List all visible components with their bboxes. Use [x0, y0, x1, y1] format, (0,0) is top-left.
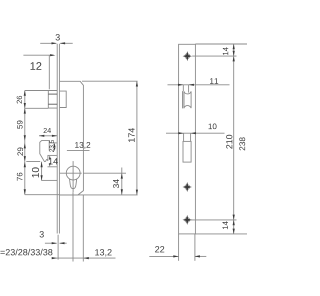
dim 12 line — [23, 54, 53, 56]
ext line cylinder center to 34 — [83, 172, 126, 174]
ext lines rect cutout — [183, 133, 185, 141]
label 29 — [17, 148, 23, 156]
dim 24 line — [39, 135, 57, 137]
dim line 14top/210/14bottom — [233, 44, 235, 234]
dim 13,2 bottom arrow — [84, 257, 89, 259]
bolt body inside case — [60, 91, 66, 107]
dim 11 line — [168, 84, 230, 86]
label 76 — [17, 173, 23, 181]
dim 10 right line — [166, 132, 225, 134]
label 24 — [44, 128, 51, 133]
bolt head left of plate — [48, 91, 57, 109]
ext line cylinder bottom — [42, 179, 57, 181]
label 23,5 — [49, 140, 54, 152]
label 14 top — [223, 47, 228, 55]
dim 22 arrows — [173, 255, 178, 257]
dim 11 arrows — [178, 84, 183, 86]
ext lines latch cutout — [182, 85, 184, 91]
dim 174 line — [136, 81, 138, 195]
dim 22 line — [149, 255, 178, 257]
label 12 — [31, 62, 42, 70]
hook shape — [40, 141, 49, 162]
dim 174 arrows — [136, 81, 138, 86]
dim 14 hook arrows — [49, 156, 51, 159]
label 3 bottom — [40, 231, 44, 237]
dim 34 arrows — [121, 173, 123, 178]
bolt bevel lines — [48, 93, 57, 95]
plate ext line down — [57, 235, 59, 260]
label 14 hook — [49, 158, 58, 164]
latch cutout bobbin — [184, 91, 191, 108]
chain tick arrows — [24, 91, 26, 96]
label 11 — [210, 78, 218, 84]
dim 3 bottom arrows — [52, 242, 57, 244]
dim 14 bottom arrows — [233, 220, 235, 225]
plate bottom ext to right edge — [195, 233, 247, 235]
small line below 14 — [48, 166, 57, 168]
label 174 — [128, 128, 134, 142]
label 34 — [113, 179, 119, 188]
screw hole middle — [183, 182, 192, 192]
top screw ext line — [192, 55, 236, 57]
label 238 — [239, 137, 245, 150]
ext case bottom to chain — [25, 194, 60, 196]
left chain dimension line — [24, 91, 26, 195]
faceplate front view outline — [179, 44, 196, 234]
screw hole top — [183, 51, 192, 61]
label 22 — [155, 246, 164, 252]
dim 3 top dimension line — [40, 42, 56, 44]
cylinder center ext line down — [72, 192, 74, 261]
dim 34 line — [121, 168, 123, 195]
dim 210 arrows — [233, 56, 235, 61]
label backset — [0, 249, 52, 256]
dim 24 arrows — [39, 135, 44, 137]
ext line 174 top — [82, 80, 138, 82]
dim 3 bottom line — [45, 242, 57, 244]
ext line case bottom to 174 — [60, 194, 138, 196]
cylinder crosshair horizontal — [60, 172, 82, 174]
bottom backset dim line — [53, 257, 116, 259]
ext line bolt bottom — [25, 107, 49, 109]
dim 10 right arrows — [178, 132, 183, 134]
small line above 14 — [48, 154, 57, 156]
hook right edge — [48, 141, 50, 151]
lock case outline — [60, 81, 84, 195]
bolt face extension line — [48, 55, 50, 89]
euro cylinder circle — [66, 166, 80, 180]
dim 3 top arrows — [52, 42, 57, 44]
label 26 — [17, 96, 22, 104]
dim 12 arrow — [50, 54, 55, 56]
euro cylinder lower lobe — [70, 179, 77, 189]
plate top ext to right edge — [195, 43, 247, 45]
label 14 bottom — [223, 221, 228, 229]
middle rect cutout — [183, 141, 191, 162]
label 13,2 bottom — [95, 249, 111, 256]
ext line hook tip — [26, 161, 40, 163]
backset dim arrow — [52, 257, 57, 259]
screw hole bottom — [183, 215, 192, 225]
ext line bolt top — [25, 90, 49, 92]
label 10 left — [32, 167, 39, 177]
label 59 — [17, 121, 23, 129]
label 210 — [226, 135, 232, 149]
label 10 right — [209, 124, 217, 130]
dim 10 left line — [41, 162, 43, 181]
small line above 23,5 — [50, 142, 57, 144]
dim 14 top arrows — [233, 44, 235, 49]
dim 22 exts below plate — [178, 234, 180, 261]
label 13,2 mid underline — [67, 150, 90, 152]
bottom screw ext line — [191, 219, 237, 221]
dim 23,5 arrows — [54, 143, 56, 147]
dim 10 left arrows — [41, 162, 43, 167]
cylinder crosshair vertical — [72, 161, 74, 192]
label 3 top — [56, 34, 60, 40]
faceplate edge view left line — [56, 44, 58, 234]
faceplate edge view right line — [58, 44, 60, 234]
label 13,2 mid — [75, 142, 90, 149]
case right edge ext line down — [82, 195, 84, 262]
